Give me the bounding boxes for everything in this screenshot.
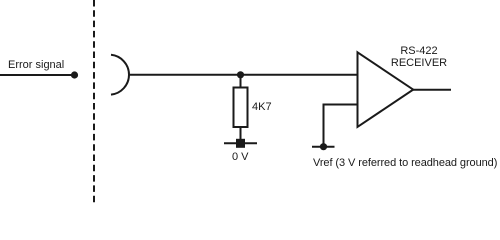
boundary dashed line	[93, 0, 95, 203]
wire main	[130, 74, 359, 76]
wire error-signal lead	[0, 74, 75, 76]
Vref terminal rail line	[312, 146, 335, 148]
wire resistor top	[240, 75, 242, 88]
resistor R1 body	[234, 88, 248, 128]
wire output	[413, 89, 451, 91]
Vref terminal dot	[320, 143, 327, 150]
ground 0V terminal square	[236, 139, 245, 148]
wire resistor bottom	[240, 127, 242, 143]
label 4K7	[252, 101, 272, 113]
op-amp U1 receiver triangle	[358, 52, 414, 127]
label Error signal	[8, 59, 64, 71]
label RS-422 RECEIVER	[391, 45, 447, 69]
label 0 V	[232, 151, 249, 163]
junction node dot	[237, 71, 244, 78]
connector arc J1	[111, 55, 129, 95]
ground 0V rail line	[224, 142, 257, 144]
wire Vref input	[324, 105, 359, 147]
label Vref	[313, 157, 497, 169]
node error-signal terminal dot	[71, 71, 78, 78]
